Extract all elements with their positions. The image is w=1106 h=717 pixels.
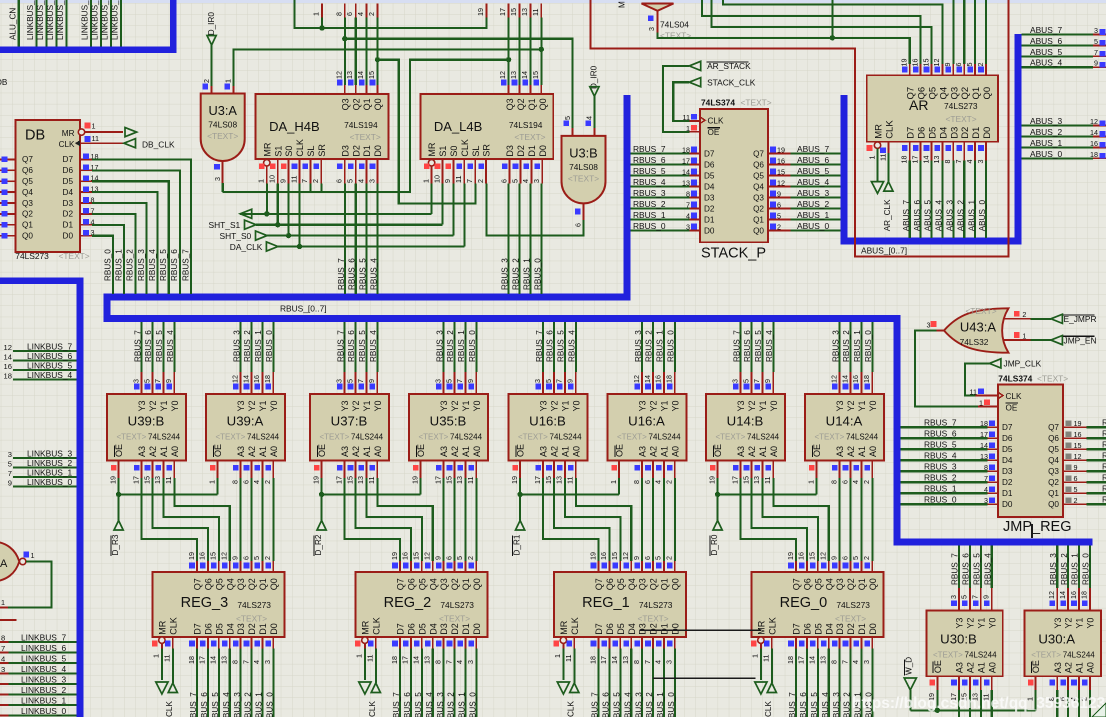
svg-text:RBUS_3: RBUS_3 xyxy=(634,330,643,362)
svg-text:11: 11 xyxy=(879,154,888,161)
svg-text:6: 6 xyxy=(840,556,849,560)
svg-text:A1: A1 xyxy=(857,446,867,457)
svg-text:17: 17 xyxy=(433,476,442,484)
svg-text:RBUS_3: RBUS_3 xyxy=(233,692,242,717)
svg-text:RBUS_4: RBUS_4 xyxy=(765,330,774,362)
svg-text:14: 14 xyxy=(1090,128,1098,137)
svg-text:RBUS_7: RBUS_7 xyxy=(535,330,544,362)
svg-text:S0: S0 xyxy=(284,146,294,157)
svg-text:16: 16 xyxy=(599,552,608,560)
svg-text:RBUS_7: RBUS_7 xyxy=(181,249,190,281)
svg-text:17: 17 xyxy=(599,656,608,664)
svg-text:74LS374: 74LS374 xyxy=(998,374,1032,384)
svg-text:RBUS_6: RBUS_6 xyxy=(924,429,957,439)
wires U16:B A3-A0 to REG Q7-Q4 xyxy=(543,478,631,561)
svg-text:Q3: Q3 xyxy=(835,578,845,590)
svg-text:<TEXT>: <TEXT> xyxy=(216,433,246,442)
svg-text:Y2: Y2 xyxy=(351,400,361,411)
svg-text:16: 16 xyxy=(851,375,860,383)
svg-text:11: 11 xyxy=(367,477,376,484)
svg-text:Y3: Y3 xyxy=(736,400,746,411)
wire DA_CLK + terminal xyxy=(230,184,464,252)
svg-text:LINKBUS_6: LINKBUS_6 xyxy=(27,351,72,361)
svg-text:REG_2: REG_2 xyxy=(384,595,432,611)
svg-text:13: 13 xyxy=(621,656,630,664)
svg-text:OE: OE xyxy=(933,660,943,673)
svg-text:3: 3 xyxy=(532,179,541,183)
svg-text:16: 16 xyxy=(4,362,12,371)
svg-text:7: 7 xyxy=(686,201,690,210)
svg-text:Y1: Y1 xyxy=(660,400,670,411)
svg-text:6: 6 xyxy=(444,556,453,560)
svg-text:ABUS_2: ABUS_2 xyxy=(1030,127,1062,137)
svg-text:D5: D5 xyxy=(1002,445,1013,454)
register REG_0 74LS273 xyxy=(751,552,884,717)
svg-text:ABUS_7: ABUS_7 xyxy=(1030,25,1062,35)
svg-text:M: M xyxy=(618,1,627,8)
svg-text:Q1: Q1 xyxy=(258,578,268,590)
svg-text:A1: A1 xyxy=(660,446,670,457)
svg-text:16: 16 xyxy=(401,552,410,560)
svg-text:RBUS_4: RBUS_4 xyxy=(568,330,577,362)
svg-text:Q2: Q2 xyxy=(516,98,526,110)
svg-text:Q5: Q5 xyxy=(1048,445,1059,454)
svg-text:74LS244: 74LS244 xyxy=(965,651,998,660)
svg-text:5: 5 xyxy=(345,379,354,383)
svg-text:14: 14 xyxy=(980,441,988,450)
svg-text:5: 5 xyxy=(777,212,781,221)
svg-text:A2: A2 xyxy=(846,446,856,457)
svg-text:A2: A2 xyxy=(247,446,257,457)
svg-text:U3:B: U3:B xyxy=(569,146,597,161)
svg-text:3: 3 xyxy=(1094,26,1098,35)
svg-text:RB: RB xyxy=(1102,484,1106,494)
svg-text:RBUS_0: RBUS_0 xyxy=(266,692,275,717)
svg-text:ABUS_3: ABUS_3 xyxy=(946,199,955,231)
svg-text:U43:A: U43:A xyxy=(960,320,996,335)
svg-text:Y2: Y2 xyxy=(247,400,257,411)
svg-text:A0: A0 xyxy=(987,662,997,673)
svg-text:Q1: Q1 xyxy=(22,221,33,230)
svg-text:RBUS_2: RBUS_2 xyxy=(244,692,253,717)
svg-text:5: 5 xyxy=(142,379,151,383)
svg-text:Y1: Y1 xyxy=(159,400,169,411)
svg-text:8: 8 xyxy=(632,660,641,664)
svg-text:D_R1: D_R1 xyxy=(513,534,522,555)
svg-text:D1: D1 xyxy=(258,623,268,635)
svg-text:D2: D2 xyxy=(516,145,526,157)
svg-text:LINKBUS_2: LINKBUS_2 xyxy=(27,458,72,468)
svg-text:D1: D1 xyxy=(63,221,74,230)
svg-text:U14:B: U14:B xyxy=(727,414,764,429)
svg-text:1: 1 xyxy=(979,399,983,408)
svg-text:Y0: Y0 xyxy=(670,400,680,411)
svg-text:D4: D4 xyxy=(704,183,715,192)
svg-text:Y3: Y3 xyxy=(1053,618,1063,629)
svg-text:Y3: Y3 xyxy=(439,400,449,411)
buffer U39:A 74LS244 xyxy=(206,322,285,484)
svg-text:<TEXT>: <TEXT> xyxy=(660,31,691,41)
label M (cut) xyxy=(618,1,627,8)
svg-text:9: 9 xyxy=(982,595,991,599)
svg-text:RBUS_6: RBUS_6 xyxy=(799,692,808,717)
svg-text:D7: D7 xyxy=(1002,423,1013,432)
wire AR Q5 net xyxy=(712,0,932,64)
svg-text:RB: RB xyxy=(1102,473,1106,483)
svg-text:RBUS_3: RBUS_3 xyxy=(924,462,957,472)
svg-text:2: 2 xyxy=(466,556,475,560)
wire net L2b inverter to AR Q7 xyxy=(658,0,910,64)
wire OE net + terminal D_R1 xyxy=(513,478,620,556)
register AR 74LS273 xyxy=(867,59,998,164)
svg-text:3: 3 xyxy=(862,660,871,664)
svg-text:MR: MR xyxy=(874,124,885,139)
svg-text:17: 17 xyxy=(730,476,739,484)
svg-text:Y0: Y0 xyxy=(269,400,279,411)
svg-text:A1: A1 xyxy=(976,662,986,673)
svg-text:DB: DB xyxy=(25,128,45,144)
DB MR pin1 + terminal arrow xyxy=(85,122,137,137)
svg-text:D1: D1 xyxy=(660,623,670,635)
svg-text:17: 17 xyxy=(797,656,806,664)
svg-text:ABUS_5: ABUS_5 xyxy=(1030,47,1062,57)
svg-text:Q1: Q1 xyxy=(971,87,982,100)
svg-text:RBUS_6: RBUS_6 xyxy=(633,155,666,165)
svg-text:10: 10 xyxy=(268,175,277,183)
svg-text:LINKBUS_5: LINKBUS_5 xyxy=(21,654,66,664)
svg-text:Q6: Q6 xyxy=(204,578,214,590)
svg-text:Q4: Q4 xyxy=(428,578,438,590)
svg-text:A3: A3 xyxy=(439,446,449,457)
wires STACK_P Q to ABUS bus + labels xyxy=(768,144,841,232)
svg-text:18: 18 xyxy=(900,156,909,164)
svg-text:7: 7 xyxy=(984,474,988,483)
svg-text:1: 1 xyxy=(257,179,266,183)
svg-text:7: 7 xyxy=(300,179,309,183)
svg-text:SR: SR xyxy=(317,144,327,157)
svg-text:CLK: CLK xyxy=(764,701,773,717)
svg-text:D3: D3 xyxy=(236,623,246,635)
svg-text:D2: D2 xyxy=(704,205,715,214)
svg-text:1: 1 xyxy=(867,156,876,160)
svg-text:3: 3 xyxy=(686,223,690,232)
register STACK_P 74LS374 xyxy=(700,98,772,262)
svg-text:ABUS_6: ABUS_6 xyxy=(797,155,829,165)
svg-text:D3: D3 xyxy=(505,145,515,157)
svg-text:12: 12 xyxy=(220,552,229,560)
shift register DA_H4B 74LS194 xyxy=(256,94,389,184)
svg-text:ABUS_3: ABUS_3 xyxy=(797,188,829,198)
svg-text:RBUS_7: RBUS_7 xyxy=(337,258,346,290)
svg-text:16: 16 xyxy=(198,552,207,560)
svg-text:Q6: Q6 xyxy=(753,161,764,170)
svg-text:ABUS_0: ABUS_0 xyxy=(978,199,987,231)
wires DA_L4B Q3-Q0 to off-page pins 17,15,13,11 xyxy=(487,4,542,95)
svg-text:Y1: Y1 xyxy=(857,400,867,411)
svg-text:1: 1 xyxy=(609,480,618,484)
svg-text:16: 16 xyxy=(252,375,261,383)
svg-text:Y1: Y1 xyxy=(461,400,471,411)
svg-text:RBUS_3: RBUS_3 xyxy=(831,330,840,362)
wire U43:A pin3 to JMP_REG OE xyxy=(915,320,997,406)
svg-text:13: 13 xyxy=(423,656,432,664)
svg-text:9: 9 xyxy=(443,179,452,183)
svg-text:A2: A2 xyxy=(148,446,158,457)
svg-text:Y2: Y2 xyxy=(1064,618,1074,629)
svg-text:OE: OE xyxy=(317,444,327,457)
svg-text:18: 18 xyxy=(187,656,196,664)
svg-text:RBUS_3: RBUS_3 xyxy=(435,330,444,362)
svg-text:D5: D5 xyxy=(214,623,224,635)
svg-text:A0: A0 xyxy=(472,446,482,457)
svg-text:Q3: Q3 xyxy=(505,98,515,110)
svg-text:AR_STACK: AR_STACK xyxy=(707,61,751,71)
register REG_2 74LS273 xyxy=(355,552,488,717)
wires DA_H4B Q3-Q0 to off-page pins 8,6,4,2 xyxy=(334,4,377,95)
svg-text:<TEXT>: <TEXT> xyxy=(518,433,548,442)
svg-text:RBUS_6: RBUS_6 xyxy=(743,330,752,362)
svg-text:<TEXT>: <TEXT> xyxy=(236,613,267,623)
svg-text:U39:B: U39:B xyxy=(128,414,165,429)
svg-text:D7: D7 xyxy=(396,623,406,635)
svg-text:15: 15 xyxy=(412,552,421,560)
svg-text:2: 2 xyxy=(665,556,674,560)
svg-text:U16:A: U16:A xyxy=(628,414,665,429)
svg-text:D_IR0: D_IR0 xyxy=(590,65,599,89)
svg-text:CLK: CLK xyxy=(368,701,377,717)
svg-text:Q6: Q6 xyxy=(1048,434,1059,443)
svg-text:ABUS_5: ABUS_5 xyxy=(924,199,933,231)
svg-text:3: 3 xyxy=(647,27,656,31)
svg-text:ABUS_1: ABUS_1 xyxy=(967,199,976,231)
svg-text:OE: OE xyxy=(812,444,822,457)
wires+labels ABUS_7-0 right edge xyxy=(1021,25,1106,159)
svg-text:13: 13 xyxy=(455,476,464,484)
svg-text:CLK: CLK xyxy=(570,617,580,635)
svg-text:RBUS_2: RBUS_2 xyxy=(126,249,135,281)
svg-text:RBUS_3: RBUS_3 xyxy=(436,692,445,717)
svg-text:D5: D5 xyxy=(417,623,427,635)
svg-text:4: 4 xyxy=(356,179,365,183)
svg-text:15: 15 xyxy=(544,476,553,484)
svg-text:15: 15 xyxy=(1074,441,1082,450)
svg-text:7: 7 xyxy=(555,379,564,383)
svg-text:RBUS_7: RBUS_7 xyxy=(133,330,142,362)
svg-text:1: 1 xyxy=(152,654,161,658)
svg-text:U39:A: U39:A xyxy=(227,414,264,429)
svg-text:9: 9 xyxy=(1074,463,1078,472)
svg-text:14: 14 xyxy=(610,656,619,664)
svg-text:19: 19 xyxy=(187,552,196,560)
svg-text:Y3: Y3 xyxy=(835,400,845,411)
svg-text:12: 12 xyxy=(498,71,507,79)
svg-text:RBUS_5: RBUS_5 xyxy=(359,258,368,290)
buffer U30:B 74LS244 xyxy=(927,545,1003,717)
svg-text:Q4: Q4 xyxy=(753,183,764,192)
svg-text:12: 12 xyxy=(777,179,785,188)
svg-text:Q6: Q6 xyxy=(22,166,33,175)
svg-text:E_JMPR: E_JMPR xyxy=(1064,314,1097,324)
svg-text:4: 4 xyxy=(356,12,365,16)
svg-text:2: 2 xyxy=(1022,310,1026,319)
svg-text:7: 7 xyxy=(8,469,12,478)
svg-text:<TEXT>: <TEXT> xyxy=(59,251,90,261)
svg-text:RBUS_7: RBUS_7 xyxy=(189,692,198,717)
svg-text:12: 12 xyxy=(621,552,630,560)
svg-text:LINKBUS_7: LINKBUS_7 xyxy=(27,342,72,352)
svg-text:D4: D4 xyxy=(428,623,438,635)
svg-text:3: 3 xyxy=(8,450,12,459)
svg-text:15: 15 xyxy=(610,552,619,560)
label ABUS_[0..7] xyxy=(861,246,907,256)
svg-text:D6: D6 xyxy=(704,161,715,170)
svg-text:D5: D5 xyxy=(928,127,939,139)
svg-text:RBUS_5: RBUS_5 xyxy=(973,553,982,585)
buffer U16:A 74LS244 xyxy=(608,322,687,484)
terminal STACK_CLK to STACK_P CLK xyxy=(673,78,756,123)
svg-text:RBUS_4: RBUS_4 xyxy=(821,692,830,717)
svg-text:D_R2: D_R2 xyxy=(314,534,323,555)
svg-text:17: 17 xyxy=(533,476,542,484)
svg-text:6: 6 xyxy=(241,480,250,484)
svg-text:12: 12 xyxy=(829,375,838,383)
svg-text:13: 13 xyxy=(356,476,365,484)
svg-text:3: 3 xyxy=(213,177,222,181)
svg-text:A2: A2 xyxy=(550,446,560,457)
svg-text:A2: A2 xyxy=(649,446,659,457)
shift register DA_L4B 74LS194 xyxy=(420,94,553,184)
svg-text:U37:B: U37:B xyxy=(331,414,368,429)
svg-text:D3: D3 xyxy=(439,623,449,635)
svg-text:4: 4 xyxy=(654,480,663,484)
wires DA_H4B D3-D0 to RBUS bus + labels RBUS_7-4 xyxy=(337,184,379,294)
wire net L4 segments xyxy=(375,57,476,204)
svg-text:74LS194: 74LS194 xyxy=(509,120,543,130)
svg-text:14: 14 xyxy=(356,71,365,79)
svg-text:3: 3 xyxy=(927,320,931,329)
svg-text:Q5: Q5 xyxy=(616,578,626,590)
svg-text:A2: A2 xyxy=(351,446,361,457)
svg-text:Q0: Q0 xyxy=(982,87,993,100)
svg-text:D6: D6 xyxy=(803,623,813,635)
svg-text:A0: A0 xyxy=(170,446,180,457)
svg-text:<TEXT>: <TEXT> xyxy=(933,651,963,660)
svg-text:74LS374: 74LS374 xyxy=(701,98,735,108)
svg-text:CLK: CLK xyxy=(708,117,724,126)
svg-text:12: 12 xyxy=(334,71,343,79)
svg-text:4: 4 xyxy=(654,660,663,664)
svg-text:JMP_CLK: JMP_CLK xyxy=(1004,359,1042,369)
svg-text:RBUS_4: RBUS_4 xyxy=(425,692,434,717)
svg-text:DA_L4B: DA_L4B xyxy=(434,119,482,134)
svg-text:OE: OE xyxy=(1031,660,1041,673)
svg-text:1: 1 xyxy=(31,551,35,560)
svg-text:Q1: Q1 xyxy=(362,98,372,110)
svg-text:REG_3: REG_3 xyxy=(181,595,229,611)
svg-text:15: 15 xyxy=(444,476,453,484)
bus ABUS right xyxy=(844,34,1018,241)
svg-text:Q3: Q3 xyxy=(340,98,350,110)
svg-text:ABUS_7: ABUS_7 xyxy=(902,199,911,231)
svg-text:Q7: Q7 xyxy=(396,578,406,590)
svg-text:<TEXT>: <TEXT> xyxy=(815,433,845,442)
svg-text:RBUS_5: RBUS_5 xyxy=(633,166,666,176)
label DB cut left edge xyxy=(0,78,8,87)
svg-text:Q4: Q4 xyxy=(627,578,637,590)
svg-text:Q2: Q2 xyxy=(351,98,361,110)
svg-text:RBUS_5: RBUS_5 xyxy=(754,330,763,362)
svg-text:11: 11 xyxy=(466,477,475,484)
svg-text:14: 14 xyxy=(4,353,12,362)
svg-text:S0: S0 xyxy=(449,146,459,157)
svg-text:RBUS_5: RBUS_5 xyxy=(155,330,164,362)
svg-text:RBUS_2: RBUS_2 xyxy=(1060,553,1069,585)
svg-text:ABUS_0: ABUS_0 xyxy=(797,221,829,231)
svg-text:RBUS_1: RBUS_1 xyxy=(853,330,862,362)
svg-text:3: 3 xyxy=(263,660,272,664)
svg-text:Q1: Q1 xyxy=(527,98,537,110)
svg-text:16: 16 xyxy=(1074,430,1082,439)
svg-text:RBUS_5: RBUS_5 xyxy=(414,692,423,717)
svg-text:D3: D3 xyxy=(835,623,845,635)
svg-text:Y1: Y1 xyxy=(362,400,372,411)
svg-text:11: 11 xyxy=(970,388,977,397)
svg-text:2: 2 xyxy=(263,556,272,560)
svg-text:<TEXT>: <TEXT> xyxy=(638,613,669,623)
svg-text:MR: MR xyxy=(757,620,767,634)
svg-text:CLK: CLK xyxy=(884,120,895,139)
svg-text:D0: D0 xyxy=(704,227,715,236)
svg-text:ABUS_7: ABUS_7 xyxy=(797,144,829,154)
svg-text:RBUS_2: RBUS_2 xyxy=(446,330,455,362)
svg-text:RBUS_6: RBUS_6 xyxy=(546,330,555,362)
register REG_3 74LS273 xyxy=(152,552,285,717)
svg-text:STACK_P: STACK_P xyxy=(701,246,766,262)
svg-text:RBUS_3: RBUS_3 xyxy=(832,692,841,717)
svg-text:Y0: Y0 xyxy=(769,400,779,411)
svg-text:16: 16 xyxy=(797,552,806,560)
svg-text:6: 6 xyxy=(954,63,963,67)
svg-text:8: 8 xyxy=(632,480,641,484)
svg-text:Q5: Q5 xyxy=(214,578,224,590)
svg-text:6: 6 xyxy=(241,556,250,560)
svg-text:RBUS_5: RBUS_5 xyxy=(159,249,168,281)
svg-text:12: 12 xyxy=(1090,117,1098,126)
svg-text:RBUS_4: RBUS_4 xyxy=(148,249,157,281)
svg-text:LINKBUS_6: LINKBUS_6 xyxy=(21,643,66,653)
svg-text:Q5: Q5 xyxy=(417,578,427,590)
svg-text:SL: SL xyxy=(306,146,316,157)
svg-text:15: 15 xyxy=(345,476,354,484)
svg-text:A2: A2 xyxy=(450,446,460,457)
svg-text:74LS244: 74LS244 xyxy=(649,433,682,442)
svg-text:5: 5 xyxy=(851,556,860,560)
svg-text:3: 3 xyxy=(949,595,958,599)
svg-text:RBUS_3: RBUS_3 xyxy=(634,692,643,717)
svg-text:D0: D0 xyxy=(670,623,680,635)
svg-text:9: 9 xyxy=(230,556,239,560)
svg-text:RBUS_0: RBUS_0 xyxy=(1082,553,1091,585)
svg-text:CLK: CLK xyxy=(59,140,75,149)
wires DB D7-D0 to RBUS bus xyxy=(92,159,191,293)
svg-text:D3: D3 xyxy=(63,199,74,208)
svg-text:9: 9 xyxy=(1094,59,1098,68)
svg-text:RB: RB xyxy=(1102,429,1106,439)
svg-text:RBUS_5: RBUS_5 xyxy=(613,692,622,717)
svg-text:14: 14 xyxy=(840,375,849,383)
svg-text:RBUS_2: RBUS_2 xyxy=(447,692,456,717)
svg-text:MR: MR xyxy=(158,620,168,634)
